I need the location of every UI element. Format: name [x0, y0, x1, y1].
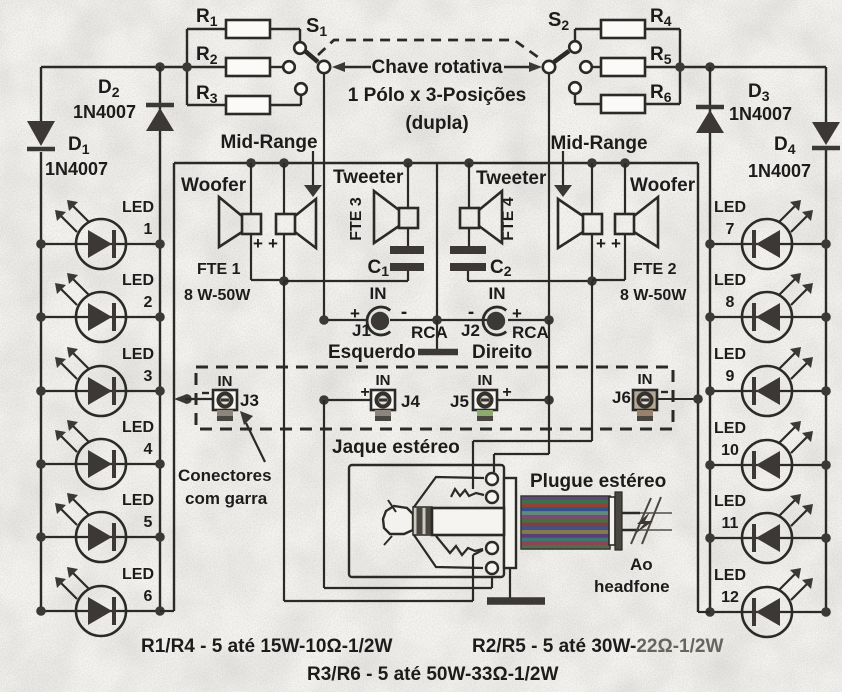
svg-text:com garra: com garra [185, 489, 268, 508]
wire C1 bottom lead [407, 271, 409, 281]
svg-text:LED: LED [714, 493, 746, 510]
node LED 5 row junctions [36, 532, 46, 542]
wire LED12 bottom extension [698, 611, 710, 613]
svg-text:J3: J3 [240, 391, 259, 410]
svg-text:J4: J4 [401, 392, 420, 411]
wire tweeter FTE4 leads [468, 163, 470, 208]
ground chassis bar [436, 320, 438, 349]
diode D3 1N4007 [696, 107, 724, 133]
LED 5 [55, 493, 126, 562]
diode D1 1N4007 [27, 121, 55, 149]
wire J2 plus lead [508, 319, 549, 321]
LED 9 [742, 347, 813, 416]
wire R2 leads [187, 66, 226, 68]
svg-text:6: 6 [144, 588, 153, 605]
svg-text:R3/R6 - 5 até 50W-33Ω-1/2W: R3/R6 - 5 até 50W-33Ω-1/2W [307, 664, 558, 685]
svg-text:10: 10 [721, 442, 739, 459]
node J4 wire [319, 395, 329, 405]
jack spring contact upper [451, 489, 484, 497]
node LED 2 row junctions [36, 312, 46, 322]
node LED 8 row junctions [705, 312, 715, 322]
LED 10 [742, 421, 813, 490]
svg-text:-: - [468, 302, 474, 323]
jack tip contact arm upper [414, 477, 484, 507]
wire S2 line to upper lug C1 [548, 320, 550, 400]
wire woofer/mid bottom bus left [251, 279, 284, 281]
wire central box left edge [173, 163, 175, 611]
wire right inner rail (D3) [709, 67, 711, 105]
svg-text:RCA: RCA [411, 323, 448, 342]
node LED 9 row junctions [705, 386, 715, 396]
svg-text:1N4007: 1N4007 [748, 161, 811, 181]
speaker mid-range right [558, 199, 602, 248]
node LED 7 row junctions [705, 239, 715, 249]
node LED 12 row junctions [705, 607, 715, 617]
svg-text:IN: IN [638, 371, 653, 388]
wire R1 leads [187, 28, 226, 30]
dashed clip-connector box [196, 367, 673, 429]
LED 1 [55, 200, 126, 269]
svg-text:Mid-Range: Mid-Range [550, 133, 647, 154]
wire LED 11 row [710, 537, 826, 539]
svg-text:LED: LED [122, 346, 154, 363]
label Chave rotativa with arrows [332, 57, 542, 134]
resistor R2 [196, 44, 270, 76]
resistor R4 [601, 6, 672, 38]
capacitor C1 [367, 250, 424, 279]
arrow conectores to J3 [246, 423, 265, 462]
node J1 plus [319, 315, 329, 325]
svg-text:+: + [360, 384, 369, 401]
jack lug circles [486, 473, 498, 485]
wire LED 4 row [41, 463, 160, 465]
wire J5 lead [497, 399, 549, 401]
node LED 10 row junctions [705, 460, 715, 470]
svg-text:LED: LED [714, 346, 746, 363]
node J6 wire [693, 394, 703, 404]
speaker FTE1 woofer [219, 197, 261, 247]
svg-text:(dupla): (dupla) [405, 113, 468, 134]
LED 8 [742, 273, 813, 342]
wire J6 lead [658, 398, 698, 400]
speaker FTE4 tweeter [460, 191, 502, 243]
svg-text:Mid-Range: Mid-Range [220, 132, 317, 153]
label J6 minus tick [661, 391, 668, 393]
wire left outer rail [40, 67, 42, 121]
node J5 wire [544, 395, 554, 405]
LED 4 [55, 420, 126, 489]
resistor R1 [196, 6, 270, 38]
jack plug ring bands [413, 507, 432, 535]
stereo plug striped body [521, 496, 610, 550]
svg-text:LED: LED [122, 419, 154, 436]
node left speaker bus [279, 276, 289, 286]
LED 6 [55, 567, 126, 636]
svg-text:8: 8 [726, 294, 735, 311]
wire LED 5 row [41, 536, 160, 538]
wire R4 leads [574, 29, 576, 40]
wire centre line x=437 [436, 163, 438, 320]
jack plug tip [383, 506, 413, 534]
wire sleeve to ground [509, 568, 511, 599]
svg-text:Ao: Ao [630, 555, 653, 574]
svg-text:+: + [596, 234, 606, 253]
node J2 plus [544, 315, 554, 325]
svg-text:LED: LED [122, 492, 154, 509]
svg-text:Conectores: Conectores [178, 466, 272, 485]
svg-text:LED: LED [122, 199, 154, 216]
wire central box right edge [697, 163, 699, 612]
wire S2 pole line down [548, 74, 550, 320]
svg-text:11: 11 [722, 515, 739, 532]
svg-text:IN: IN [489, 284, 506, 303]
svg-text:2: 2 [144, 294, 153, 311]
LED 12 [742, 568, 813, 637]
node LED 3 row junctions [36, 386, 46, 396]
switch S2 rotary [543, 9, 592, 94]
svg-text:J6: J6 [612, 388, 631, 407]
node LED 4 row junctions [36, 459, 46, 469]
speaker FTE2 woofer [615, 197, 658, 247]
svg-text:Woofer: Woofer [181, 175, 247, 196]
wire R3 leads [187, 104, 226, 106]
svg-text:+: + [253, 234, 263, 253]
connector J3 [213, 390, 237, 421]
RCA jack J1 [367, 307, 390, 335]
wire central box top edge [174, 162, 698, 164]
svg-text:J2: J2 [461, 321, 480, 340]
node top-left junctions [155, 62, 165, 72]
svg-text:Jaque estéreo: Jaque estéreo [332, 437, 460, 458]
svg-text:8 W-50W: 8 W-50W [184, 287, 251, 304]
wire J4 lead [324, 399, 371, 401]
wire midrange left leads [283, 163, 285, 214]
svg-text:7: 7 [726, 221, 735, 238]
connector J4 [371, 390, 395, 421]
wire woofer FTE2 leads [624, 163, 626, 214]
wire right resistor-bank bus [679, 29, 681, 104]
wire left inner rail (D2) [159, 67, 161, 103]
LED 3 [55, 347, 126, 416]
svg-text:LED: LED [714, 199, 746, 216]
jack plug barrel [432, 508, 504, 535]
wire LED 12 row [710, 611, 826, 613]
wire left speaker bus to lower lug C3 [283, 281, 285, 601]
diode D2 1N4007 [146, 105, 174, 131]
wire right speaker bus to upper lug C2 [591, 281, 593, 441]
wire woofer FTE1 leads [250, 163, 252, 214]
wire plug to headphone lower [622, 529, 639, 531]
connector J5 [473, 390, 497, 421]
jack tip tick marks [388, 500, 396, 512]
svg-text:IN: IN [218, 373, 233, 390]
jack spring contact lower [436, 536, 483, 555]
wire LED 3 row [41, 390, 160, 392]
wire woofer/mid bottom bus right [592, 279, 625, 281]
svg-text:FTE 1: FTE 1 [197, 261, 241, 278]
wire tweeter FTE3 leads [407, 163, 409, 208]
resistor R3 [196, 83, 270, 114]
svg-text:headfone: headfone [594, 577, 670, 596]
wire top-left rail [41, 66, 187, 68]
svg-text:-: - [401, 302, 407, 323]
wire LED 9 row [710, 390, 826, 392]
node LED 1 row junctions [36, 239, 46, 249]
svg-text:1N4007: 1N4007 [73, 102, 136, 122]
svg-text:12: 12 [721, 589, 739, 606]
arrow mid-range right [562, 151, 564, 187]
svg-text:Tweeter: Tweeter [333, 167, 404, 188]
svg-text:R1/R4 - 5 até 15W-10Ω-1/2W: R1/R4 - 5 até 15W-10Ω-1/2W [141, 636, 392, 657]
svg-text:1 Pólo x 3-Posições: 1 Pólo x 3-Posições [348, 85, 526, 106]
node top-right junctions [675, 62, 685, 72]
node LED 11 row junctions [705, 533, 715, 543]
wire S1 pole line down [323, 74, 325, 320]
svg-text:RCA: RCA [512, 323, 549, 342]
capacitor C2 [450, 250, 512, 279]
wire LED 7 row [710, 243, 826, 245]
svg-text:1N4007: 1N4007 [45, 159, 108, 179]
svg-text:+: + [611, 234, 621, 253]
svg-text:IN: IN [478, 372, 493, 389]
svg-text:Chave rotativa: Chave rotativa [372, 57, 503, 78]
svg-text:+: + [268, 234, 278, 253]
node LED 6 row junctions [36, 606, 46, 616]
svg-text:+: + [512, 304, 522, 323]
stereo jack body [349, 465, 504, 577]
speaker FTE3 tweeter [374, 191, 418, 243]
svg-text:LED: LED [714, 567, 746, 584]
node box top junctions [246, 158, 256, 168]
RCA jack J2 [483, 307, 506, 335]
jack sleeve strip [504, 478, 516, 568]
svg-text:IN: IN [370, 284, 387, 303]
dashed gang link S1-S2 [318, 40, 542, 60]
svg-text:3: 3 [144, 368, 153, 385]
svg-text:J5: J5 [450, 392, 469, 411]
diode D4 1N4007 [812, 122, 840, 148]
wire J3 lead [185, 398, 213, 400]
node J3 wire [182, 394, 192, 404]
wire J1 plus lead [324, 319, 366, 321]
label J3 minus tick [202, 392, 209, 394]
wire top-right rail [680, 66, 826, 68]
node centre junction [432, 315, 442, 325]
wire J1 pin lead [390, 319, 437, 321]
svg-text:R2/R5 - 5 até 30W-22Ω-1/2W: R2/R5 - 5 até 30W-22Ω-1/2W [472, 636, 723, 657]
svg-text:LED: LED [714, 420, 746, 437]
wire J2 pin lead [437, 319, 487, 321]
wire R5 leads [593, 66, 601, 68]
svg-text:9: 9 [726, 368, 735, 385]
svg-text:Esquerdo: Esquerdo [328, 342, 416, 363]
svg-text:Direito: Direito [472, 342, 532, 363]
wire right outer rail [825, 67, 827, 122]
svg-text:Tweeter: Tweeter [476, 168, 547, 189]
speaker mid-range left [276, 199, 316, 248]
connector J6 [633, 390, 657, 421]
wire midrange right leads [591, 163, 593, 214]
wire S1 line to lower lug C4 [323, 400, 325, 588]
svg-text:FTE 2: FTE 2 [633, 261, 677, 278]
svg-text:J1: J1 [352, 321, 371, 340]
wire LED 6 row [41, 610, 160, 612]
stereo plug white collar [609, 497, 615, 545]
svg-text:Plugue estéreo: Plugue estéreo [530, 471, 666, 492]
svg-text:LED: LED [122, 272, 154, 289]
lightning bolt symbol [635, 512, 653, 534]
svg-text:1N4007: 1N4007 [729, 104, 792, 124]
LED 2 [55, 273, 126, 342]
arrow mid-range left [312, 151, 314, 187]
svg-text:+: + [502, 384, 511, 401]
stereo plug cap ring [615, 492, 622, 550]
resistor R5 [601, 44, 672, 76]
arrow J3 to rail [174, 394, 187, 404]
switch S1 rotary [283, 15, 330, 95]
svg-text:Woofer: Woofer [630, 175, 696, 196]
node right speaker bus [587, 276, 597, 286]
break slashes to headphone [631, 498, 651, 544]
wire LED 1 row [41, 243, 160, 245]
svg-text:LED: LED [714, 272, 746, 289]
jack tip contact arm lower [414, 535, 483, 568]
svg-text:FTE 3: FTE 3 [348, 197, 365, 241]
LED 11 [742, 494, 813, 563]
wire plug to headphone upper [622, 512, 640, 514]
svg-text:1: 1 [144, 221, 153, 238]
wire LED 10 row [710, 464, 826, 466]
wire R6 leads [574, 95, 576, 104]
ground bar jack [487, 597, 545, 605]
wire left resistor-bank bus [186, 29, 188, 105]
resistor R6 [601, 82, 672, 113]
LED 7 [742, 200, 813, 269]
wire LED6 bottom extension [160, 610, 174, 612]
wire C2 bottom lead [467, 271, 469, 281]
svg-text:IN: IN [376, 372, 391, 389]
wire LED 8 row [710, 316, 826, 318]
svg-text:LED: LED [122, 566, 154, 583]
svg-text:8 W-50W: 8 W-50W [620, 287, 687, 304]
svg-text:5: 5 [144, 514, 153, 531]
wire LED 2 row [41, 316, 160, 318]
svg-text:4: 4 [144, 441, 153, 458]
